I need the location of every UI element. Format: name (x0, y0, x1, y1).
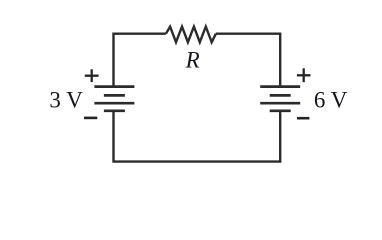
polarity plus right (297, 68, 311, 82)
resistor R (166, 27, 216, 43)
wire bottom segment (114, 111, 281, 161)
svg-text:R: R (185, 47, 200, 72)
wire top-right segment (216, 34, 280, 86)
svg-text:3 V: 3 V (49, 87, 83, 112)
svg-text:6 V: 6 V (314, 87, 348, 112)
polarity minus left (84, 117, 97, 120)
polarity plus left (85, 69, 99, 82)
polarity minus right (297, 117, 309, 120)
battery B2 (6 V) (260, 87, 300, 111)
wire top-left segment (114, 34, 166, 86)
battery B1 (3 V) (94, 87, 134, 111)
